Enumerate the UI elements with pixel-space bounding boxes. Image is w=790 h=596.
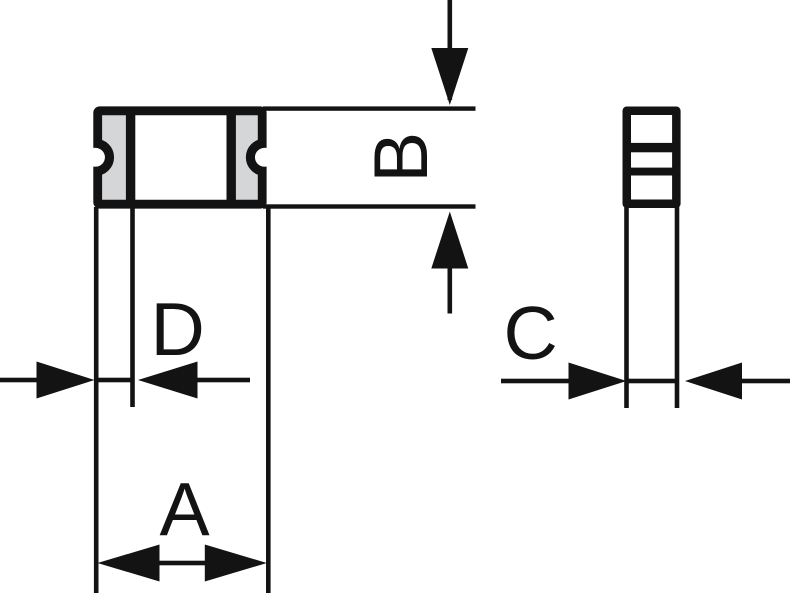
arrowhead D right-pointing xyxy=(37,362,95,399)
extension line inner-left vertical (D right) xyxy=(130,207,135,407)
top view: left notch white gap xyxy=(86,148,105,167)
svg-text:B: B xyxy=(359,132,444,183)
extension line side-view right vertical xyxy=(675,207,680,408)
top view: left notch arc xyxy=(96,143,110,171)
top view: right terminal (gray) xyxy=(234,111,262,204)
dimension line D right segment xyxy=(197,378,250,383)
dimension line B lower vertical xyxy=(448,225,453,314)
dimension line D left segment xyxy=(0,378,37,383)
extension line B bottom xyxy=(263,204,476,208)
dimension line C right segment xyxy=(741,379,790,384)
arrowhead D left-pointing xyxy=(138,362,198,399)
dimension line C left segment xyxy=(501,379,569,384)
arrowhead C left-pointing xyxy=(685,363,742,400)
dimension line C middle segment xyxy=(626,379,677,384)
top view: right notch arc xyxy=(250,143,264,171)
top view: left inner separator bar xyxy=(126,110,135,205)
arrowhead C right-pointing xyxy=(569,363,627,400)
extension line side-view left vertical xyxy=(624,207,629,408)
extension line right vertical (A right) xyxy=(266,207,271,593)
top view: left terminal (gray) xyxy=(99,111,127,204)
arrowhead B up xyxy=(431,212,468,269)
top view: outer body outline xyxy=(98,111,263,204)
side view: upper inner bar xyxy=(627,143,676,152)
svg-text:C: C xyxy=(504,291,558,375)
side view: body outline xyxy=(627,111,677,204)
arrowhead A right-pointing xyxy=(205,545,267,582)
dimension line B upper vertical xyxy=(448,0,453,100)
arrowhead B down xyxy=(431,48,468,105)
extension line left vertical (A/D left) xyxy=(94,207,99,593)
side view: lower inner bar xyxy=(627,168,676,176)
svg-text:A: A xyxy=(160,467,210,551)
top view: right notch white gap xyxy=(255,148,274,167)
svg-text:D: D xyxy=(151,287,205,371)
dimension line A xyxy=(158,561,206,566)
arrowhead A left-pointing xyxy=(98,545,160,582)
dimension line D middle segment xyxy=(95,378,134,383)
extension line B top xyxy=(263,106,476,110)
top view: right inner separator bar xyxy=(227,110,236,205)
